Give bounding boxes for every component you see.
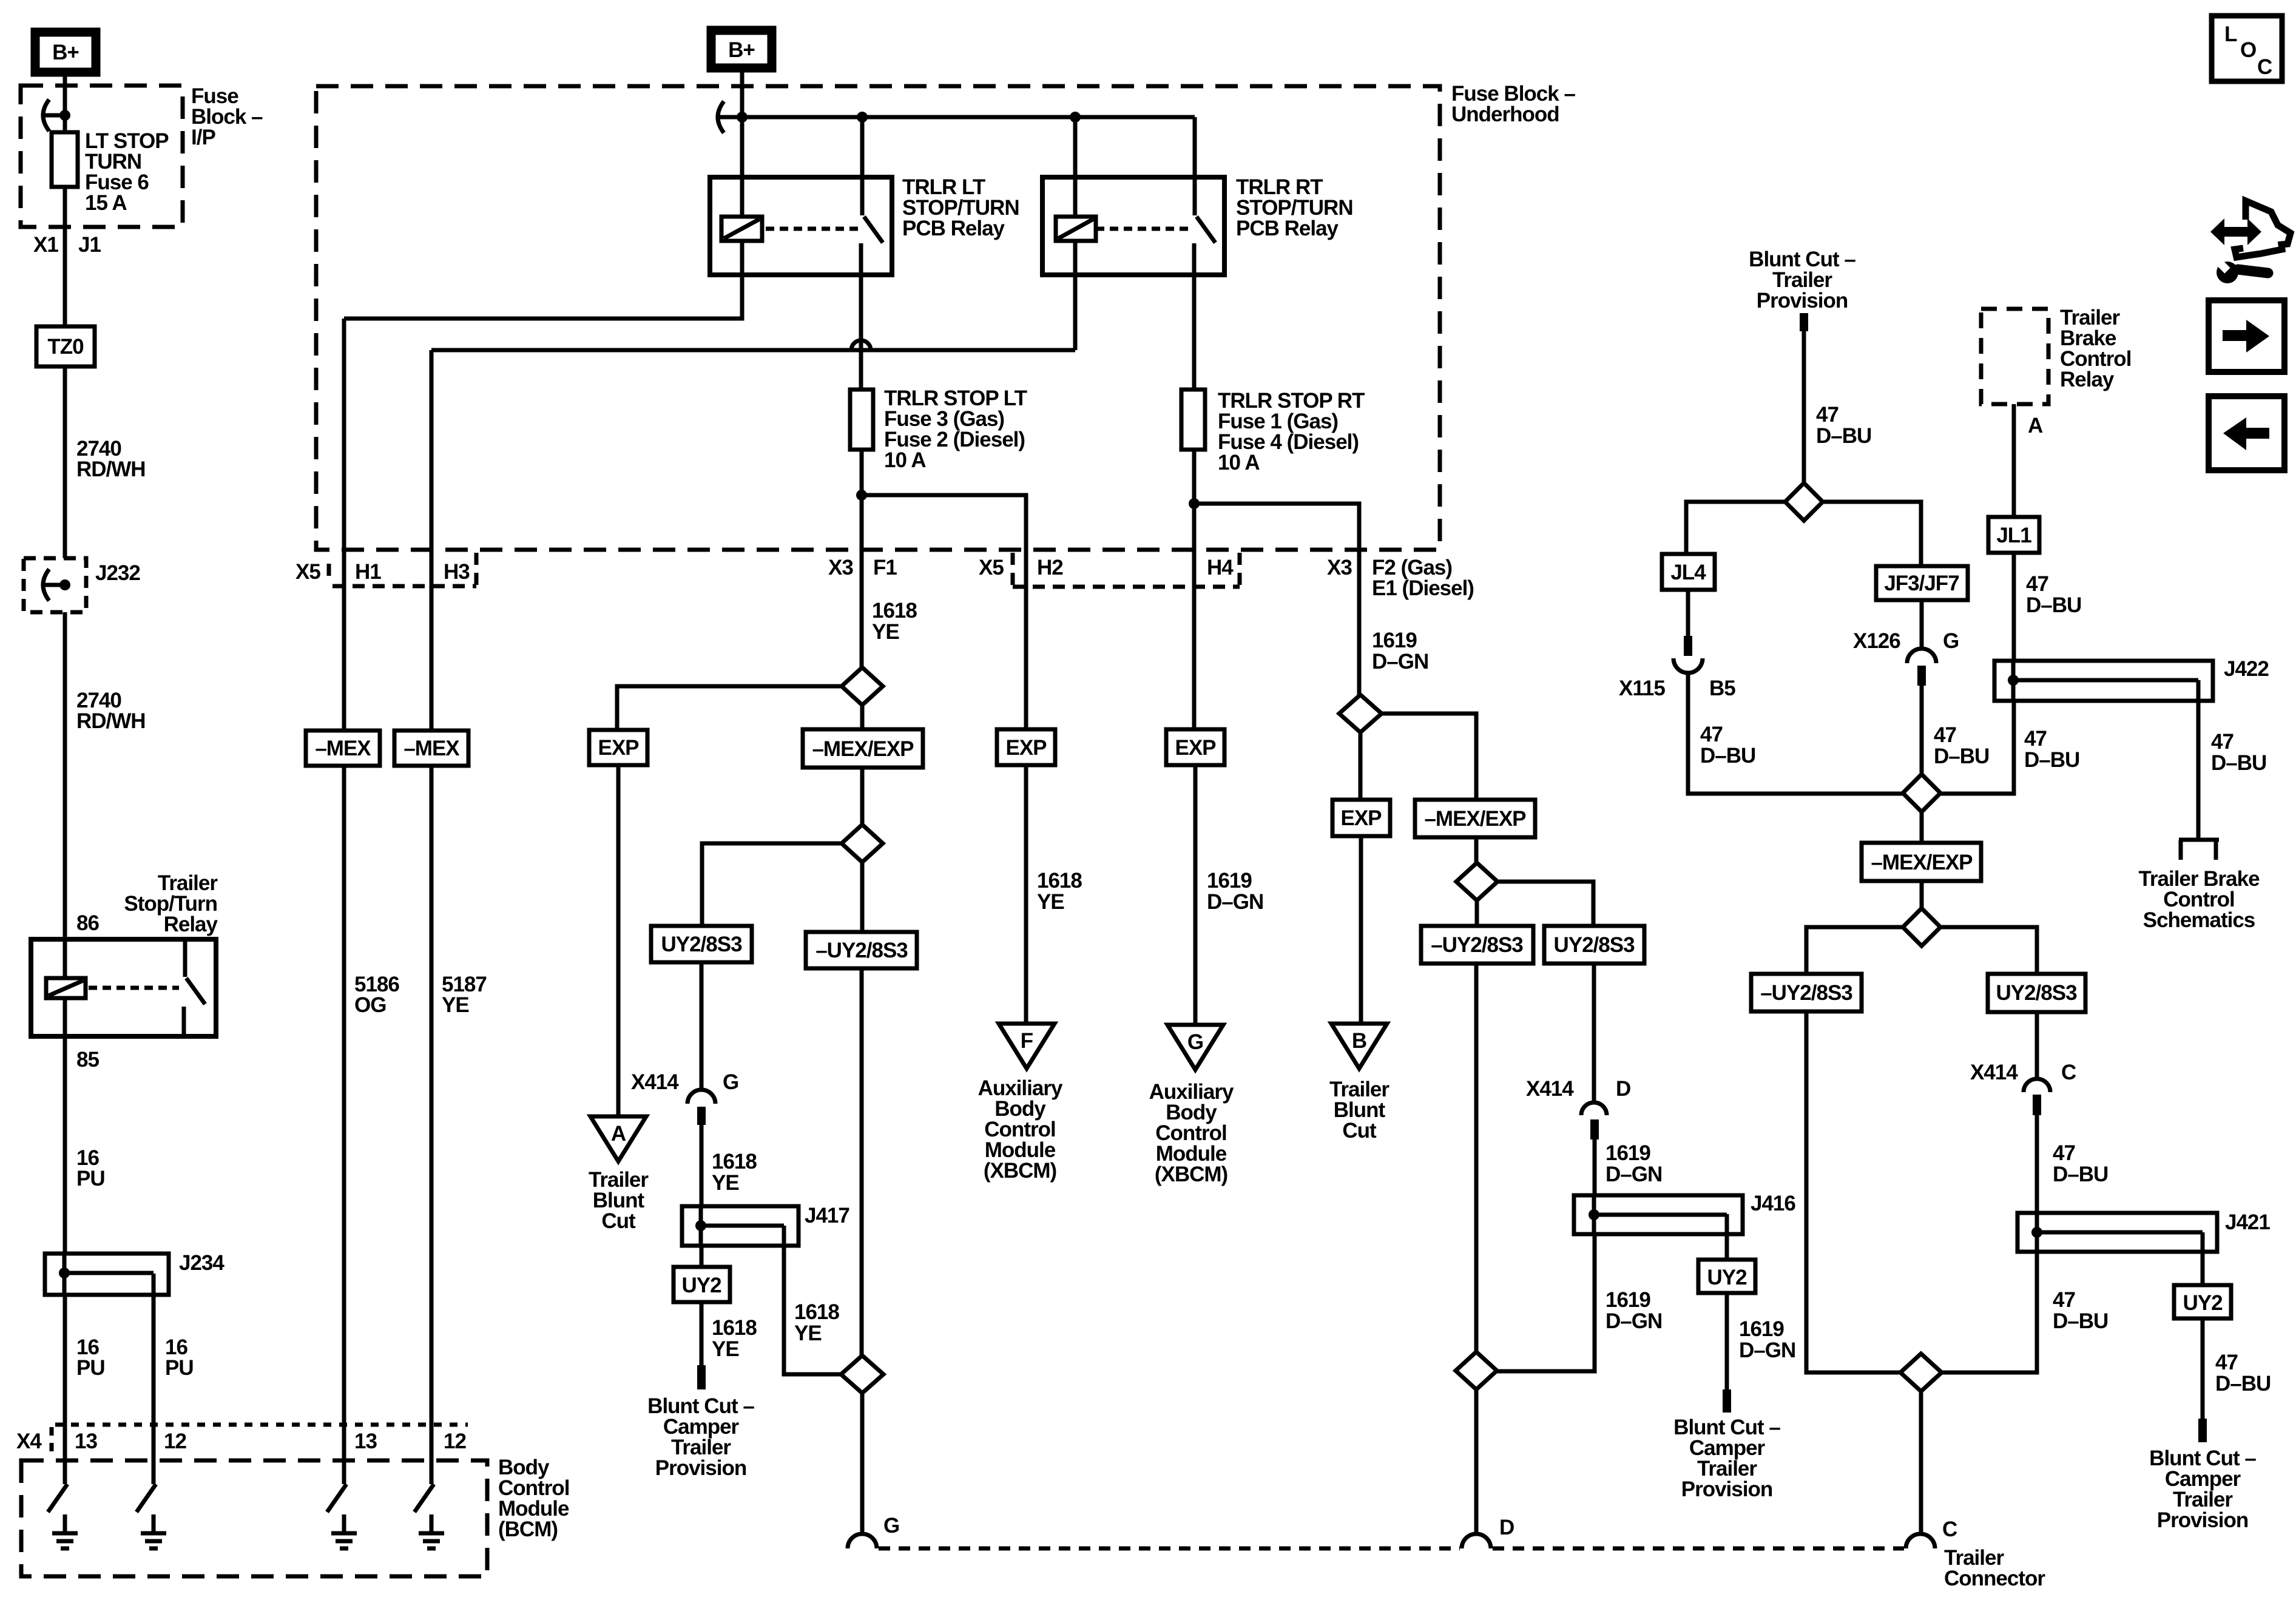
svg-text:RD/WH: RD/WH: [76, 457, 146, 481]
svg-text:–MEX: –MEX: [315, 737, 371, 760]
option box UY2/8S3 right: [1988, 974, 2085, 1012]
svg-text:D: D: [1499, 1516, 1514, 1539]
connector X414 D cap: [1581, 1102, 1607, 1115]
wire J416 to splice S5: [1497, 1234, 1595, 1371]
relay K trailer stop/turn box: [31, 939, 216, 1036]
wire S1 to EXP left: [617, 686, 842, 730]
label 47 D-BU blunt cut: [1816, 403, 1871, 448]
svg-text:Schematics: Schematics: [2143, 908, 2255, 932]
trailer brake control relay dashed box: [1981, 309, 2048, 404]
splice diamond S6: [841, 1355, 883, 1393]
svg-text:PU: PU: [76, 1167, 105, 1190]
svg-text:47: 47: [2053, 1288, 2075, 1312]
wire 16 PU right branch to BCM pin 12: [152, 1274, 156, 1460]
wire H1 vertical 5186: [342, 319, 346, 731]
blunt cut stub camper trailer provision center: [1723, 1389, 1731, 1413]
junction dot fuse RT branch: [1189, 498, 1200, 509]
relay1 internal dashed link: [766, 227, 858, 231]
bus wire B+ distribution: [742, 115, 1195, 120]
svg-text:PCB Relay: PCB Relay: [902, 217, 1005, 240]
connector clip at fuse block I/P feed: [43, 100, 68, 131]
svg-text:H3: H3: [444, 560, 470, 584]
blunt cut stub trailer provision: [1800, 313, 1808, 331]
svg-text:13: 13: [354, 1430, 377, 1453]
junction dot at relay2 coil feed: [1070, 112, 1081, 123]
wire JL4 to X115: [1686, 590, 1690, 637]
option box JL1: [1988, 517, 2039, 553]
connector X5 sub box H1 H3: [329, 553, 476, 586]
connector X414 C labels: [1970, 1061, 2076, 1084]
label 47 D-BU below UY2 right: [2215, 1351, 2271, 1396]
svg-text:H2: H2: [1037, 556, 1063, 579]
label Trailer Blunt Cut B: [1329, 1078, 1389, 1143]
wire S2 to UY2/8S3: [702, 843, 842, 926]
wire H4 EXP to triangle G: [1194, 765, 1198, 1025]
forward arrow box: [2209, 300, 2284, 372]
wire blunt cut to splice S7: [1802, 331, 1806, 483]
wire to relay2 switch: [1193, 117, 1197, 215]
triangle connector B: [1331, 1024, 1387, 1068]
junction dot at B+ wire: [737, 112, 748, 123]
svg-text:(XBCM): (XBCM): [1155, 1163, 1227, 1186]
connector X5 sub box H2 H4: [1013, 553, 1240, 587]
svg-text:UY2/8S3: UY2/8S3: [1996, 981, 2077, 1005]
svg-text:X115: X115: [1619, 677, 1665, 700]
svg-text:X414: X414: [631, 1070, 679, 1094]
label Fuse Block I/P: [191, 84, 263, 149]
svg-text:L: L: [2224, 22, 2237, 46]
body control module BCM dashed box: [21, 1460, 487, 1576]
wire S10 to trailer connector C: [1919, 1391, 1923, 1534]
svg-text:YE: YE: [794, 1322, 822, 1345]
svg-text:D–GN: D–GN: [1606, 1163, 1662, 1186]
wire 16 PU to J234: [63, 1036, 67, 1254]
svg-text:Cut: Cut: [1342, 1119, 1377, 1143]
svg-text:10 A: 10 A: [884, 448, 926, 472]
svg-text:1618: 1618: [872, 599, 917, 623]
wire UY2/8S3 to X414 D: [1592, 964, 1596, 1102]
option box -UY2/8S3 right: [1751, 974, 1862, 1011]
blunt cut stub camper trailer provision right: [2198, 1419, 2207, 1442]
wire J421 to splice S10: [1942, 1252, 2037, 1372]
wire 2740 RD/WH lower segment: [63, 612, 67, 939]
wire relay2 coil feed: [1073, 117, 1078, 217]
service info icon connector outline: [2235, 201, 2291, 257]
svg-text:Provision: Provision: [2157, 1508, 2248, 1532]
label 1618 YE below UY2: [712, 1316, 757, 1361]
label 47 D-BU below X126: [1934, 723, 1989, 768]
svg-text:J421: J421: [2225, 1210, 2270, 1234]
svg-text:1618: 1618: [1037, 869, 1082, 893]
svg-text:J1: J1: [78, 233, 101, 257]
connector X414 C cap: [2024, 1079, 2050, 1092]
wire 5186 OG to BCM: [342, 766, 346, 1460]
svg-text:B+: B+: [728, 38, 755, 62]
option box JF3/JF7: [1876, 566, 1968, 600]
svg-text:TZ0: TZ0: [47, 335, 84, 359]
wire JL1 to J422: [2012, 553, 2016, 661]
power node B+ underhood: [711, 30, 772, 68]
wire fuse LT to F1 exit: [860, 450, 864, 667]
connector X115 stub: [1684, 636, 1692, 656]
svg-text:1618: 1618: [794, 1300, 839, 1324]
svg-text:I/P: I/P: [191, 126, 215, 149]
label 5187 YE: [442, 973, 487, 1017]
svg-text:JL1: JL1: [1996, 524, 2031, 547]
connector X4 tick: [50, 1427, 54, 1459]
wire X414 G to J417: [700, 1125, 704, 1206]
splice J234: [45, 1254, 169, 1295]
splice diamond S4: [1456, 863, 1497, 900]
svg-text:EXP: EXP: [1005, 736, 1047, 760]
svg-text:UY2/8S3: UY2/8S3: [1553, 933, 1635, 957]
service info icon double arrow: [2210, 218, 2261, 245]
wire JF3/JF7 to X126: [1920, 600, 1924, 650]
wire -UY2/8S3 to splice S10: [1806, 1011, 1902, 1372]
pin label X3 F1: [828, 556, 897, 579]
svg-text:1619: 1619: [1207, 869, 1252, 893]
splice diamond S1 on 1618: [842, 667, 883, 705]
label Blunt Cut Camper Trailer Provision left: [647, 1394, 754, 1480]
relay TRLR RT STOP/TURN PCB box: [1042, 177, 1224, 275]
svg-text:Cut: Cut: [601, 1209, 636, 1233]
wire fuse 6 to TZ0: [63, 187, 67, 326]
svg-text:Relay: Relay: [2060, 368, 2115, 391]
svg-text:Connector: Connector: [1944, 1567, 2045, 1590]
pin label X3 F2 E1: [1327, 556, 1474, 600]
label TRLR LT STOP/TURN PCB Relay: [902, 175, 1019, 240]
wire UY2 to blunt cut: [700, 1302, 704, 1365]
svg-text:Provision: Provision: [1681, 1477, 1772, 1501]
wire branch to F2 exit: [1194, 504, 1359, 695]
BCM driver ground pin 12: [137, 1460, 166, 1548]
svg-text:O: O: [2240, 38, 2256, 62]
svg-text:D–BU: D–BU: [2026, 593, 2081, 617]
connector X126 cap: [1907, 649, 1936, 663]
wire S3 branch right: [1382, 714, 1476, 800]
label TRLR RT STOP/TURN PCB Relay: [1236, 175, 1353, 240]
svg-text:G: G: [1943, 629, 1959, 653]
power node B+ (fuse block I/P feed): [35, 32, 96, 72]
wire S6 to trailer connector G: [860, 1394, 865, 1534]
BCM driver ground pin 13: [48, 1460, 78, 1548]
wire S4 to -UY2/8S3: [1475, 900, 1479, 926]
connector X414 C stub: [2033, 1095, 2041, 1115]
option box EXP on F2: [1332, 800, 1390, 836]
svg-text:47: 47: [2053, 1141, 2075, 1165]
wire H2 EXP to triangle F: [1024, 765, 1028, 1024]
wire UY2/8S3 to X414 C: [2035, 1012, 2039, 1080]
option box JL4: [1662, 554, 1715, 590]
splice diamond S7: [1785, 483, 1823, 521]
svg-text:47: 47: [2215, 1351, 2238, 1374]
svg-text:RD/WH: RD/WH: [76, 709, 146, 733]
svg-text:1619: 1619: [1606, 1141, 1650, 1165]
svg-text:85: 85: [76, 1048, 99, 1072]
wire -UY2/8S3 down to splice S6: [860, 968, 864, 1356]
wire H3 vertical 5187: [430, 350, 434, 731]
svg-text:YE: YE: [712, 1171, 739, 1195]
fuse block I/P dashed box: [21, 86, 183, 227]
label 47 D-BU below X115: [1700, 723, 1755, 768]
wire J421 branch to UY2: [2201, 1232, 2205, 1285]
svg-text:47: 47: [2211, 730, 2234, 754]
svg-text:C: C: [1942, 1517, 1957, 1541]
label Auxiliary Body Control Module XBCM left: [978, 1076, 1063, 1183]
label Blunt Cut Trailer Provision top: [1749, 248, 1855, 312]
option box EXP on H4: [1166, 729, 1224, 765]
svg-text:47: 47: [1700, 723, 1723, 746]
svg-text:PCB Relay: PCB Relay: [1236, 217, 1339, 240]
label 1619 D-GN below UY2: [1739, 1317, 1795, 1362]
fuse block underhood dashed box: [316, 86, 1440, 550]
relay2 internal dashed link: [1096, 227, 1190, 231]
svg-text:47: 47: [2024, 727, 2047, 751]
relay K coil: [46, 978, 86, 998]
splice J422: [1994, 661, 2213, 701]
label 2740 RD/WH lower: [76, 689, 146, 733]
svg-text:UY2/8S3: UY2/8S3: [661, 933, 742, 956]
svg-text:12: 12: [164, 1430, 186, 1453]
label LT STOP TURN Fuse 6 15 A: [85, 129, 169, 215]
connector X414 D labels: [1526, 1077, 1630, 1101]
connector clip underhood B+ feed: [718, 101, 743, 133]
wire S1 to -MEX/EXP: [860, 705, 865, 729]
label 1618 YE on J417 branch: [794, 1300, 839, 1345]
splice diamond S3 on 1619: [1339, 695, 1382, 732]
svg-text:A: A: [611, 1122, 626, 1146]
option box UY2/8S3 left: [651, 926, 752, 962]
trailer connector D arc: [1462, 1534, 1491, 1548]
svg-text:J422: J422: [2224, 657, 2269, 681]
label Fuse Block Underhood: [1451, 82, 1575, 126]
svg-text:B: B: [1352, 1029, 1366, 1053]
triangle connector F: [999, 1024, 1055, 1068]
svg-text:10 A: 10 A: [1218, 451, 1260, 474]
option box -UY2/8S3 center: [1421, 926, 1533, 964]
label 2740 RD/WH upper: [76, 437, 146, 481]
LOC legend box: [2212, 16, 2282, 81]
svg-text:J232: J232: [95, 561, 140, 585]
junction dot at relay1 switch feed: [857, 112, 868, 123]
svg-text:JL4: JL4: [1670, 561, 1706, 584]
trailer connector C arc: [1906, 1534, 1935, 1548]
svg-text:UY2: UY2: [681, 1274, 721, 1297]
svg-text:15 A: 15 A: [85, 191, 127, 215]
svg-text:–MEX/EXP: –MEX/EXP: [1871, 851, 1973, 874]
svg-text:D–BU: D–BU: [2053, 1309, 2108, 1333]
relay K switch: [184, 939, 205, 1036]
label 16 PU branch left: [76, 1335, 105, 1380]
label 47 D-BU below J422: [2024, 727, 2079, 772]
svg-text:D–BU: D–BU: [2215, 1372, 2271, 1396]
label Blunt Cut Camper Trailer Provision right: [2149, 1447, 2256, 1532]
service info icon wrench: [2217, 260, 2268, 283]
junction dot J232: [59, 579, 70, 590]
label 1619 D-GN on H4: [1207, 869, 1263, 914]
svg-text:H4: H4: [1207, 556, 1234, 579]
svg-text:–MEX/EXP: –MEX/EXP: [1424, 807, 1526, 831]
option box -MEX/EXP: [803, 729, 923, 768]
svg-text:1618: 1618: [712, 1150, 757, 1173]
wire B+ down to relay coil 1: [740, 72, 745, 217]
connector J232 dashed box: [24, 558, 86, 612]
wire S3 to EXP: [1359, 732, 1363, 800]
label 1619 D-GN at F2: [1372, 629, 1428, 673]
splice diamond S5: [1456, 1352, 1497, 1389]
wire EXP to trailer blunt cut A: [616, 765, 621, 1116]
wire S8 to -MEX/EXP right: [1920, 812, 1924, 843]
triangle connector A: [590, 1116, 646, 1161]
wire -MEX/EXP to S4: [1474, 837, 1479, 863]
wire 16 PU left branch to BCM pin 13: [63, 1295, 67, 1460]
svg-text:D–GN: D–GN: [1739, 1338, 1795, 1362]
svg-text:(XBCM): (XBCM): [984, 1159, 1056, 1183]
splice J417: [682, 1206, 799, 1246]
splice diamond S9: [1903, 908, 1940, 946]
svg-text:D: D: [1616, 1077, 1630, 1101]
wire X414 C to J421: [2035, 1115, 2039, 1213]
option box -MEX/EXP right: [1415, 800, 1535, 837]
off-page connector trailer brake control schematics: [2179, 840, 2219, 860]
wire J417 branch to splice S6: [784, 1226, 841, 1374]
blunt cut stub camper trailer provision left: [697, 1365, 706, 1389]
svg-text:X3: X3: [1327, 556, 1352, 579]
svg-text:G: G: [723, 1070, 738, 1094]
splice diamond S2: [842, 825, 883, 862]
label 5186 OG: [354, 973, 399, 1017]
label 1619 D-GN above J416: [1606, 1141, 1662, 1186]
label 47 D-BU at J422 branch: [2211, 730, 2266, 775]
label C Trailer Connector: [1942, 1517, 2045, 1590]
label X115 B5: [1619, 677, 1735, 700]
option box -MEX/EXP far right: [1862, 843, 1981, 881]
wire 2740 RD/WH upper segment: [63, 366, 67, 558]
svg-text:47: 47: [1934, 723, 1956, 747]
wire S7 to JF3/JF7: [1823, 502, 1921, 566]
option box UY2/8S3 center: [1544, 926, 1644, 964]
svg-text:47: 47: [2026, 572, 2048, 596]
connector X115 cup: [1673, 658, 1703, 673]
svg-text:X5: X5: [295, 560, 320, 584]
back arrow box: [2209, 396, 2284, 470]
svg-text:J234: J234: [179, 1251, 225, 1275]
wire -MEX/EXP to S9: [1920, 881, 1924, 908]
option box UY2 center: [1698, 1260, 1755, 1293]
svg-text:–UY2/8S3: –UY2/8S3: [815, 939, 908, 962]
svg-text:D–GN: D–GN: [1606, 1309, 1662, 1333]
wire J417 to UY2: [700, 1246, 704, 1267]
wire branch to H2 exit: [862, 495, 1026, 729]
label Trailer Brake Control Schematics: [2138, 867, 2260, 932]
option box UY2: [674, 1267, 730, 1302]
splice J416: [1574, 1195, 1743, 1234]
svg-text:D–GN: D–GN: [1372, 650, 1428, 673]
wire J422 branch to off-page: [2196, 680, 2201, 840]
svg-text:JF3/JF7: JF3/JF7: [1884, 572, 1959, 595]
wire relay2 coil return to H3 with hop: [1073, 241, 1078, 350]
fuse F6 LT STOP TURN: [52, 132, 78, 187]
svg-text:D–BU: D–BU: [2053, 1163, 2108, 1186]
wire UY2 to blunt cut center: [1725, 1293, 1729, 1389]
svg-text:H1: H1: [355, 560, 381, 584]
svg-text:YE: YE: [442, 993, 469, 1017]
svg-text:F1: F1: [873, 556, 897, 579]
svg-text:G: G: [883, 1514, 899, 1538]
svg-text:EXP: EXP: [1175, 736, 1216, 760]
wire fuse RT to H4 exit: [1192, 450, 1197, 729]
label 1618 YE on H2: [1037, 869, 1082, 914]
svg-text:J416: J416: [1751, 1192, 1795, 1215]
label 1618 YE above J417: [712, 1150, 757, 1195]
svg-text:12: 12: [444, 1430, 466, 1453]
svg-text:D–BU: D–BU: [2024, 748, 2079, 772]
connector X4 dotted edge: [55, 1423, 468, 1427]
option box EXP on H2: [997, 729, 1055, 765]
option box UY2 right: [2174, 1285, 2231, 1318]
option box -UY2/8S3 left: [806, 932, 917, 968]
BCM driver ground pin 12 right: [414, 1460, 444, 1548]
svg-text:X4: X4: [16, 1430, 42, 1453]
label 16 PU branch right: [165, 1335, 194, 1380]
label Body Control Module BCM: [498, 1456, 569, 1541]
label 47 D-BU above J422: [2026, 572, 2081, 617]
connector clip J232: [43, 569, 68, 601]
wire S9 to UY2/8S3 right: [1940, 927, 2037, 974]
triangle connector G xbcm: [1167, 1025, 1223, 1070]
svg-text:Provision: Provision: [1757, 289, 1848, 312]
svg-text:1619: 1619: [1739, 1317, 1784, 1341]
wire UY2 to blunt cut right: [2201, 1318, 2205, 1419]
svg-text:A: A: [2028, 414, 2043, 437]
svg-text:Underhood: Underhood: [1451, 103, 1559, 126]
svg-text:X1: X1: [33, 233, 58, 257]
svg-text:–MEX: –MEX: [403, 737, 460, 760]
wire X414 D to J416: [1593, 1139, 1597, 1195]
wire J422 through to splice S8: [1940, 701, 2014, 794]
svg-text:47: 47: [1816, 403, 1838, 427]
svg-text:F: F: [1021, 1029, 1033, 1053]
svg-text:UY2: UY2: [2183, 1291, 2223, 1315]
svg-text:D–BU: D–BU: [1816, 424, 1871, 448]
relay1 coil: [721, 217, 762, 241]
wire S7 to JL4: [1686, 502, 1785, 554]
svg-text:EXP: EXP: [1340, 806, 1382, 830]
junction dot J1 feed: [59, 110, 70, 121]
relay K internal dashed link: [89, 986, 179, 990]
wire S9 to -UY2/8S3 right: [1806, 927, 1903, 974]
svg-text:(BCM): (BCM): [498, 1517, 558, 1541]
splice diamond S8: [1903, 774, 1940, 812]
label X126 G: [1853, 629, 1959, 653]
splice J421: [2017, 1213, 2217, 1252]
wire -UY2/8S3 down to S5: [1474, 964, 1479, 1352]
svg-text:UY2: UY2: [1707, 1266, 1747, 1289]
svg-text:D–BU: D–BU: [2211, 751, 2266, 775]
label Trailer Brake Control Relay: [2060, 306, 2131, 391]
terminal TZ0: [36, 326, 95, 366]
svg-text:X5: X5: [979, 556, 1004, 579]
svg-text:OG: OG: [354, 993, 386, 1017]
label 47 D-BU below J421: [2053, 1288, 2108, 1333]
relay2 coil: [1056, 217, 1096, 241]
svg-text:X414: X414: [1970, 1061, 2018, 1084]
svg-text:Relay: Relay: [164, 913, 218, 936]
svg-text:J417: J417: [805, 1204, 849, 1227]
svg-text:D–BU: D–BU: [1934, 744, 1989, 768]
wire J416 branch to UY2: [1725, 1214, 1729, 1260]
svg-text:B+: B+: [52, 41, 79, 64]
